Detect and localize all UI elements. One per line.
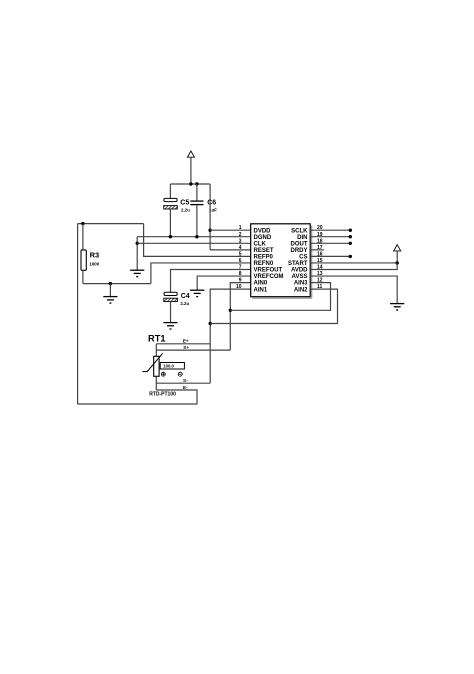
wire DGND to CLK drop	[136, 237, 138, 271]
node START junction	[396, 261, 399, 264]
svg-text:R3: R3	[90, 251, 100, 260]
wire pin12 AIN3 loop	[230, 283, 330, 311]
resistor R3	[81, 224, 100, 284]
svg-text:AIN1: AIN1	[254, 287, 268, 293]
wire REFN0 drop	[151, 263, 251, 284]
wire power stem to rail	[190, 157, 192, 184]
wire pin17 DRDY stub	[310, 249, 324, 251]
wire pin4 RESET	[210, 249, 251, 251]
svg-text:S-: S-	[183, 378, 188, 383]
ground G4	[190, 290, 204, 296]
node C6 top junction	[195, 182, 198, 185]
wire pin13 AVSS	[310, 276, 397, 304]
wire pin8 VREFCOM	[197, 276, 251, 290]
transistor RT1 RTD body	[142, 344, 162, 390]
wire pin16 CS stub	[310, 255, 350, 257]
node C5 bottom junction	[169, 235, 172, 238]
svg-text:C4: C4	[181, 293, 190, 300]
capacitor C5	[164, 184, 190, 237]
node ground tap junction	[109, 282, 112, 285]
svg-text:1: 1	[239, 225, 242, 231]
svg-text:RT1: RT1	[148, 333, 166, 343]
wire S-	[156, 382, 210, 384]
wire pin15 START	[310, 262, 397, 264]
RT1 value display box	[160, 363, 184, 370]
svg-text:E+: E+	[183, 339, 189, 344]
node pin19 end	[349, 235, 352, 238]
wire power stem right	[396, 251, 398, 263]
RT1 decrement button	[178, 372, 182, 376]
svg-text:AIN2: AIN2	[294, 287, 308, 293]
wire pin1 DVDD	[210, 229, 251, 231]
node DVDD junction	[208, 229, 211, 232]
ground G3	[163, 323, 177, 329]
svg-text:100.0: 100.0	[163, 364, 174, 369]
svg-text:7: 7	[239, 265, 242, 271]
svg-text:2: 2	[239, 232, 242, 238]
svg-text:AIN3: AIN3	[294, 281, 308, 287]
svg-text:AIN0: AIN0	[254, 281, 268, 287]
op-amp U1 ADC IC body	[251, 224, 311, 297]
ground G2	[103, 284, 117, 304]
wire pin9 AIN0	[230, 283, 250, 351]
svg-text:START: START	[288, 261, 308, 267]
svg-text:2.2u: 2.2u	[180, 301, 189, 306]
node power rail junction	[189, 182, 192, 185]
svg-text:CS: CS	[299, 255, 307, 261]
wire pin11 AIN2 loop	[210, 289, 337, 323]
svg-text:3: 3	[239, 238, 242, 244]
node C6 bottom junction	[195, 235, 198, 238]
node pin18 end	[349, 242, 352, 245]
wire pin14 AVDD	[310, 263, 397, 270]
wire pin10 AIN1	[210, 289, 251, 383]
svg-text:VREFCOM: VREFCOM	[254, 274, 284, 280]
svg-text:SCLK: SCLK	[291, 228, 308, 234]
wire pin7 VREFOUT	[171, 270, 251, 293]
svg-text:DIN: DIN	[297, 235, 307, 241]
op-amp U1 ADC box shadow	[252, 226, 311, 299]
node pin20 end	[349, 229, 352, 232]
power symbol VCC top	[187, 151, 194, 157]
node pin16 end	[349, 255, 352, 258]
svg-text:4: 4	[239, 245, 242, 251]
svg-text:AVDD: AVDD	[291, 268, 308, 274]
svg-text:CLK: CLK	[254, 241, 267, 247]
wire E-	[78, 390, 197, 404]
node R3 top junction	[81, 222, 84, 225]
svg-text:E-: E-	[183, 385, 188, 390]
node AIN0/AIN3 junction	[229, 309, 232, 312]
wire R3 bottom rail	[83, 283, 151, 285]
ground G1	[130, 270, 144, 276]
svg-text:10: 10	[236, 284, 242, 290]
capacitor C6	[190, 184, 217, 237]
power symbol VCC right	[394, 245, 401, 251]
node AIN1/AIN2 junction	[209, 322, 212, 325]
svg-text:6: 6	[239, 258, 242, 264]
wire E+	[156, 343, 210, 345]
wire pin19 DIN stub	[310, 236, 350, 238]
svg-text:RTD-PT100: RTD-PT100	[149, 391, 176, 397]
capacitor C4	[164, 292, 190, 322]
svg-text:S+: S+	[183, 345, 189, 350]
wire DGND rail pin2	[137, 236, 251, 238]
svg-text:1600: 1600	[89, 262, 99, 267]
wire left loop vertical	[77, 224, 79, 404]
wire pin3 CLK	[137, 242, 251, 244]
svg-text:8: 8	[239, 271, 242, 277]
wire R3 top rail	[78, 223, 144, 225]
svg-text:9: 9	[239, 278, 242, 284]
svg-text:REFN0: REFN0	[254, 261, 274, 267]
wire S+	[156, 349, 230, 351]
wire pin20 SCLK stub	[310, 229, 350, 231]
node CLK junction	[136, 242, 139, 245]
svg-text:2.2u: 2.2u	[181, 208, 190, 213]
svg-text:REFP0: REFP0	[254, 255, 274, 261]
svg-text:C5: C5	[180, 199, 189, 206]
ground G5	[390, 304, 404, 310]
svg-text:VREFOUT: VREFOUT	[254, 268, 283, 274]
wire DVDD/RESET feed vertical	[209, 184, 211, 250]
svg-text:DRDY: DRDY	[290, 248, 307, 254]
svg-text:DOUT: DOUT	[291, 241, 308, 247]
svg-text:C6: C6	[207, 199, 216, 206]
wire REFP0 drop	[144, 224, 251, 257]
RT1 increment button	[161, 372, 165, 376]
svg-text:DGND: DGND	[254, 235, 272, 241]
wire pin18 DOUT stub	[310, 242, 350, 244]
svg-text:AVSS: AVSS	[292, 274, 308, 280]
svg-text:5: 5	[239, 251, 242, 257]
svg-text:RESET: RESET	[254, 248, 274, 254]
svg-text:DVDD: DVDD	[254, 228, 272, 234]
wire top supply rail	[170, 183, 210, 185]
